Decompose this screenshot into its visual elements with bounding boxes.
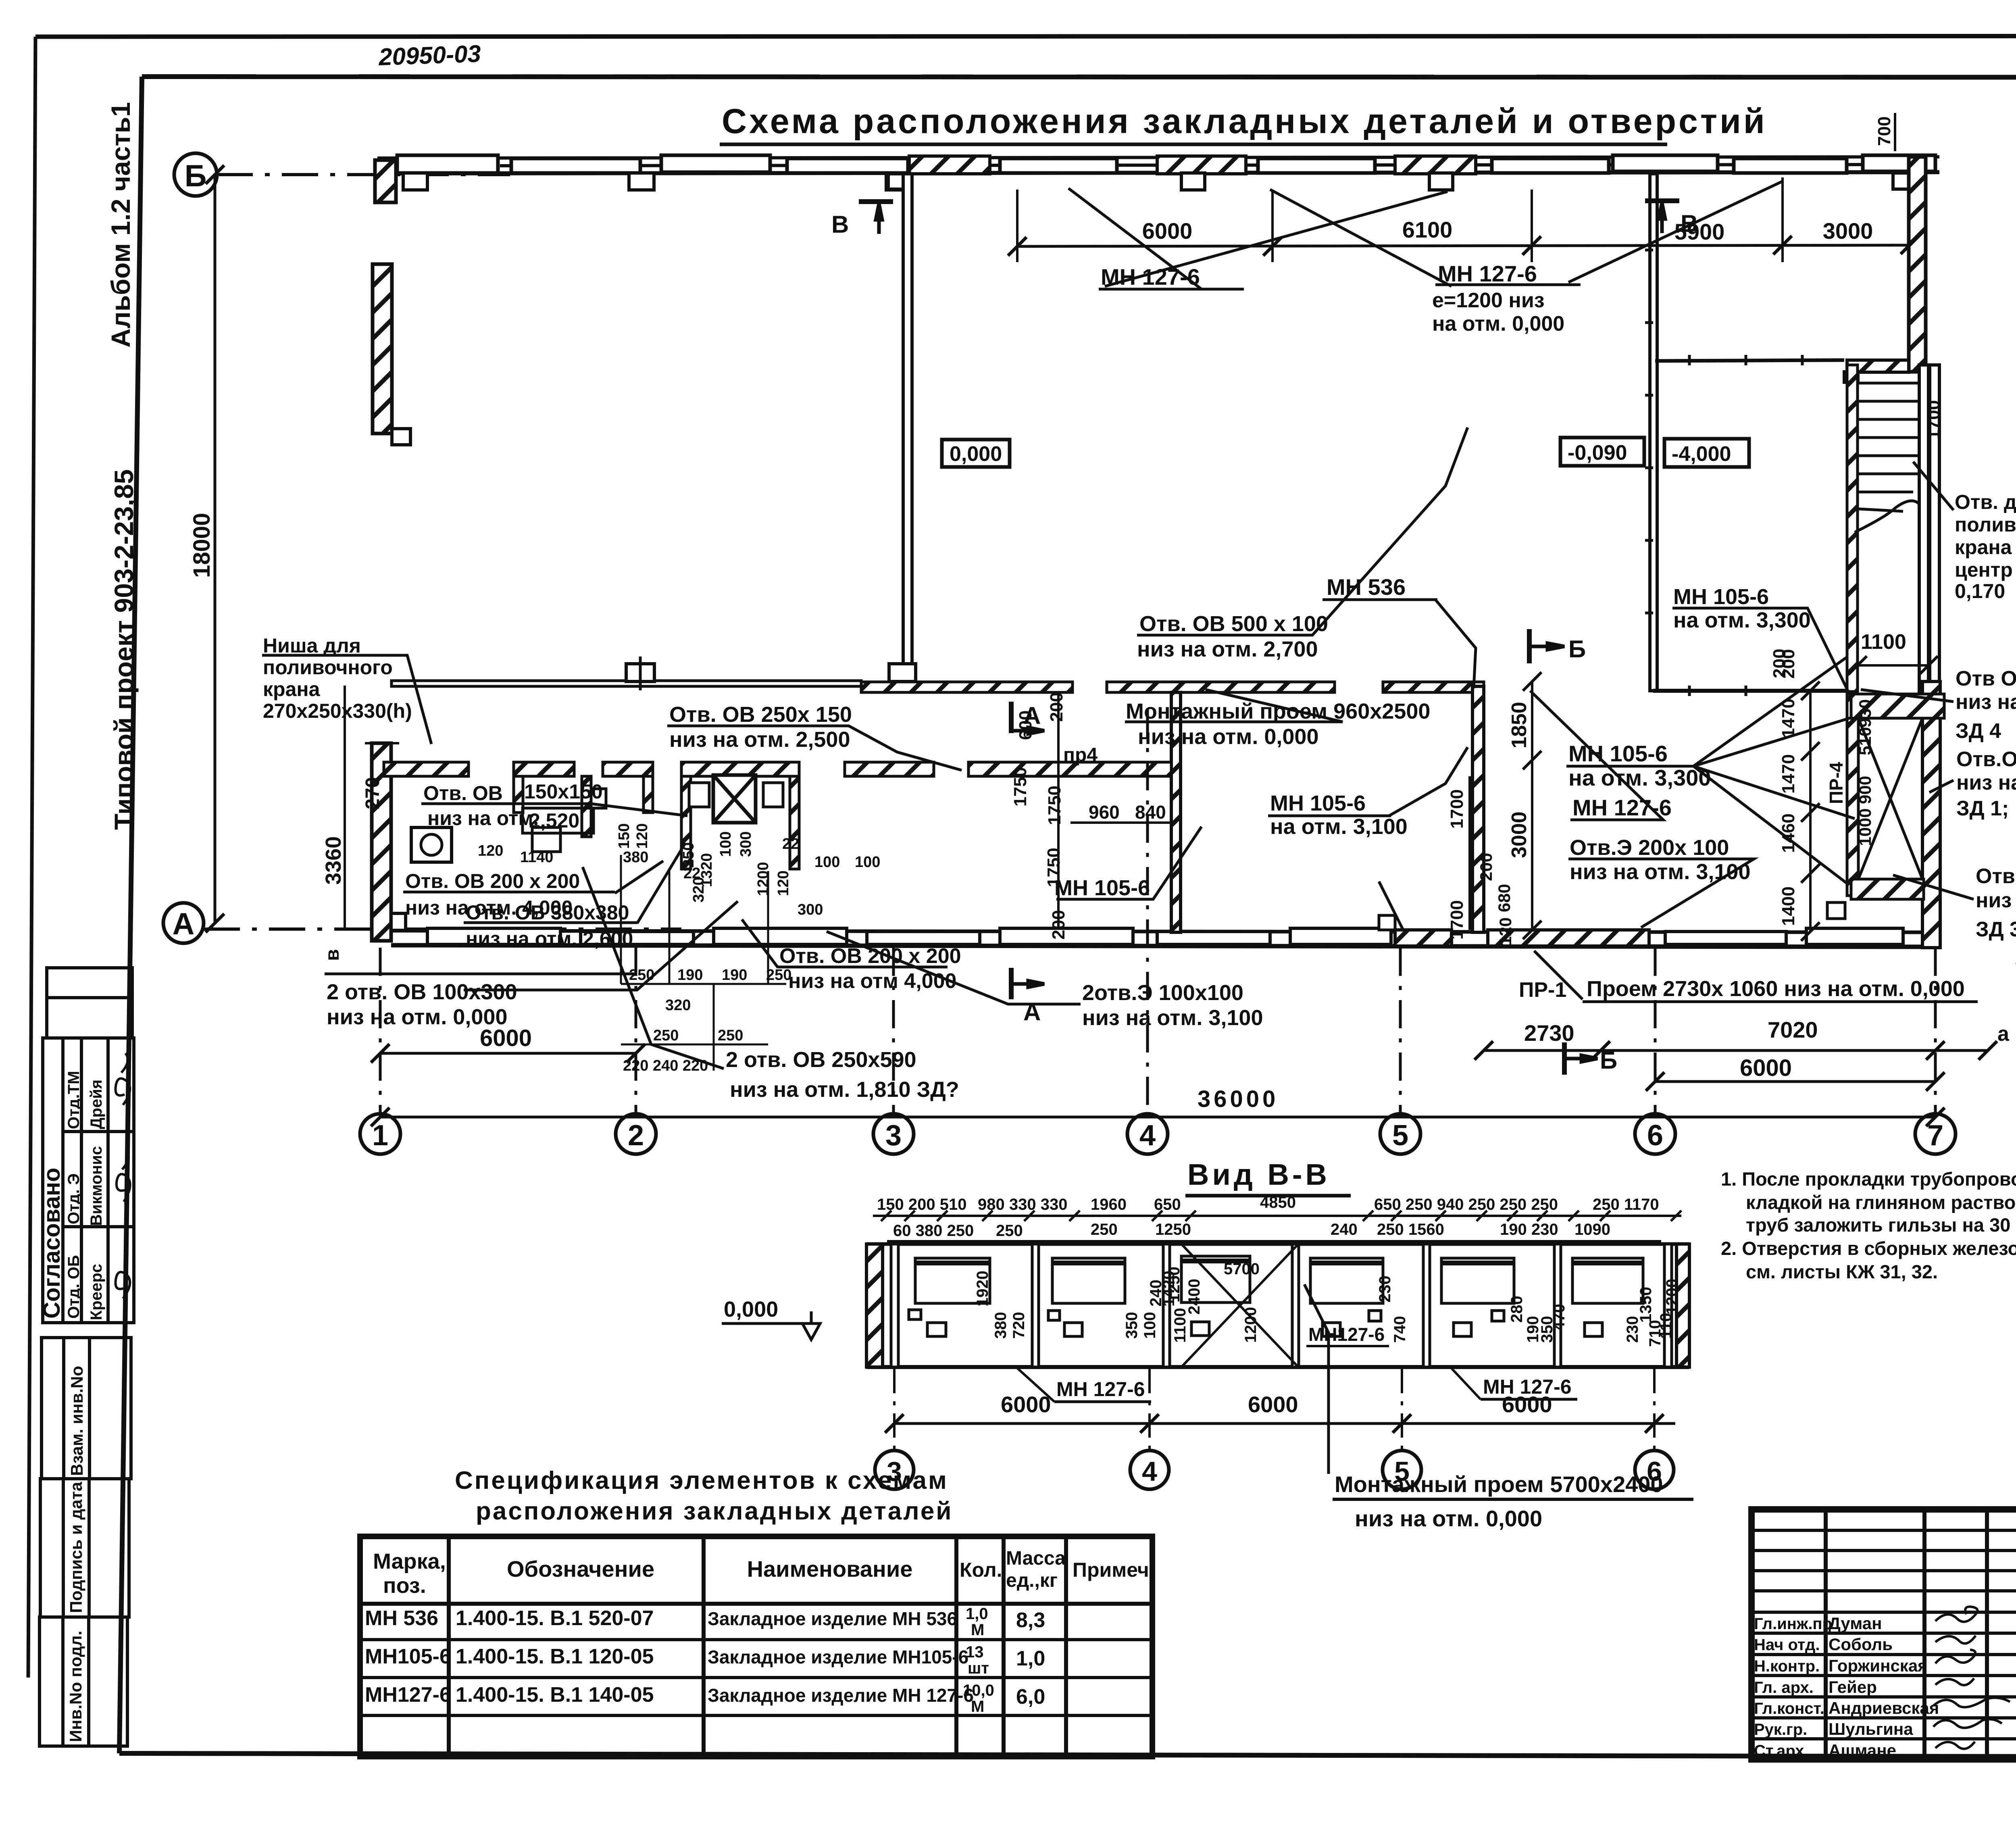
bottom dim row 2730 7020 [1484,1049,1988,1052]
svg-text:1100: 1100 [1171,1308,1189,1343]
svg-text:Б: Б [185,159,207,193]
svg-text:240: 240 [1331,1221,1358,1238]
signature squiggle 3 [115,1272,130,1298]
svg-text:190 230: 190 230 [1500,1221,1558,1238]
north wall band top line [377,157,1939,158]
south wall panel 8 [1665,932,1786,944]
title block grid [1752,1509,2016,1759]
divider 5 [1554,1244,1561,1367]
svg-text:250 1170: 250 1170 [1593,1196,1659,1213]
svg-text:250: 250 [766,967,791,984]
svg-text:5700: 5700 [1224,1260,1260,1278]
svg-text:Шульгина: Шульгина [1829,1719,1913,1738]
margin approval box (Согласовано) [43,1038,134,1323]
spec table grid [360,1536,1152,1757]
svg-text:МН 127-6: МН 127-6 [1056,1378,1145,1401]
H2 column tab V1 [889,664,916,681]
svg-text:120: 120 [478,842,503,859]
svg-text:А: А [173,907,195,941]
svg-text:крана: крана [263,678,321,700]
svg-text:МН 105-6: МН 105-6 [1270,791,1366,815]
svg-text:1000: 1000 [1856,809,1874,846]
svg-text:МН 536: МН 536 [365,1607,438,1630]
north wall window panel 12 [1734,158,1847,173]
svg-text:6000: 6000 [1740,1055,1792,1081]
fixture washbasin rect [411,827,452,862]
svg-text:1.400-15. В.1 120-05: 1.400-15. В.1 120-05 [456,1645,654,1668]
svg-text:Соболь: Соболь [1829,1635,1893,1654]
svg-text:1750: 1750 [1010,767,1030,807]
svg-text:низ на отм. 0,300: низ на отм. 0,300 [1956,690,2016,714]
axis circle 4 [1127,1114,1168,1154]
divider 1 [1032,1244,1039,1367]
svg-text:7: 7 [1927,1119,1943,1152]
axis circle А [163,903,204,943]
svg-text:Горжинская: Горжинская [1829,1656,1928,1675]
svg-text:низ на отм. 2,500: низ на отм. 2,500 [669,727,850,752]
svg-text:Альбом 1.2 часть1: Альбом 1.2 часть1 [106,102,135,348]
svg-text:250: 250 [653,1027,679,1044]
opening panel 1 [909,1258,990,1336]
svg-text:Гейер: Гейер [1829,1678,1877,1696]
margin box upper empty 1 [47,968,132,998]
north wall window panel 8 [1258,158,1375,173]
east wall lower-right hatched [1922,681,1940,948]
svg-text:1,0: 1,0 [1016,1647,1045,1670]
underline МН127-6 е=1200 [1435,283,1581,286]
svg-text:3360: 3360 [321,836,346,885]
svg-text:200: 200 [1047,692,1066,722]
svg-text:120: 120 [775,871,792,896]
axis Б dash-dot line [217,173,510,176]
svg-text:Ниша для: Ниша для [263,634,361,657]
leader big МН 105-6 3,300 fan [1568,657,1847,766]
fixture rect 2 [763,783,783,807]
svg-text:МН127-6: МН127-6 [1308,1324,1385,1345]
inner frame bottom [119,1753,2016,1757]
6000 dim line axes 6-7 [1655,1080,1935,1083]
svg-text:низ на отм. 3,100: низ на отм. 3,100 [1570,860,1750,884]
svg-text:Вид В-В: Вид В-В [1187,1158,1330,1191]
axis circle 5 [1383,1451,1421,1489]
svg-text:ПР-1: ПР-1 [1519,978,1566,1002]
margin box Подпись и дата [40,1479,129,1617]
section mark Б lower [1564,1042,1597,1075]
north wall hatched lintel 2 [1157,156,1246,174]
leader МН 127-6 lower right [1530,691,1663,820]
inner frame top [142,77,2016,77]
column tab axis1 [403,173,427,190]
axis circle 5 [1380,1114,1420,1154]
cluster tiny dims [478,823,880,1074]
svg-text:Викмонис: Викмонис [87,1146,105,1226]
south wall hatched opening ПР-1 [1488,930,1649,946]
svg-text:В: В [831,211,849,238]
axis А dash-dot line [204,927,681,931]
svg-text:150х150: 150х150 [524,780,603,803]
leader 2отв ОВ 100х300 [464,901,738,990]
svg-text:МН127-6: МН127-6 [365,1683,451,1707]
svg-text:низ на отм. 3,100: низ на отм. 3,100 [1082,1006,1263,1030]
svg-text:320: 320 [690,877,707,902]
underline big МН105-6 [1566,765,1695,768]
svg-text:Наименование: Наименование [747,1556,913,1582]
svg-text:7020: 7020 [1768,1017,1818,1042]
svg-text:1420: 1420 [1160,1271,1178,1307]
svg-text:200: 200 [1770,649,1789,678]
top tiny dim row 2 [893,1221,1610,1240]
fixture rect 1 [689,783,709,807]
leader Монтажный проем 960 [1125,690,1343,722]
svg-text:МН 127-6: МН 127-6 [1572,795,1672,820]
svg-text:е=1200 низ: е=1200 низ [1432,289,1545,312]
axis circle 3 [873,1114,914,1154]
opening panel 4 [1310,1258,1383,1336]
axis circle 7 [1915,1114,1956,1154]
east wall upper hatched [1909,157,1926,372]
room side wall d2 [790,776,799,869]
south wall panel 2 [581,932,694,944]
svg-text:250: 250 [718,1027,743,1044]
svg-text:ЗД 4: ЗД 4 [1956,719,2001,743]
stairs treads [1855,383,1928,532]
svg-text:2. Отверстия в сборных желе: 2. Отверстия в сборных железобетонных пе… [1721,1238,2016,1259]
svg-text:Подпись и дата: Подпись и дата [67,1482,85,1613]
north wall window panel 1 [397,155,498,173]
small dim line 270 [365,742,399,744]
svg-text:А: А [1023,998,1041,1025]
svg-text:22: 22 [782,836,799,852]
axis circle 1 [360,1114,400,1154]
svg-text:Н.контр.: Н.контр. [1754,1657,1820,1675]
svg-text:Взам. инв.No: Взам. инв.No [67,1366,86,1476]
leader Отв ОВ 200х200 left [615,861,663,893]
svg-text:Думан: Думан [1829,1614,1882,1633]
elevation box -0,090 [1560,438,1644,466]
svg-text:низ на отм 4,000: низ на отм 4,000 [788,969,956,993]
svg-text:Б: Б [1600,1047,1617,1074]
svg-text:Масса: Масса [1006,1548,1066,1569]
column tab axis2 [629,173,654,190]
svg-text:380: 380 [992,1312,1010,1339]
H2 column tab axis2 [626,664,654,681]
margin box Взам.инв.No [42,1338,131,1479]
axis circle 2 [616,1114,656,1154]
svg-text:250: 250 [1091,1221,1118,1238]
svg-text:в: в [322,949,343,961]
south wall panel 3 [714,928,847,944]
svg-text:Согласовано: Согласовано [39,1168,65,1319]
svg-text:2отв.Э 100х100: 2отв.Э 100х100 [1082,981,1243,1005]
fixture toilet [532,827,560,852]
svg-text:3: 3 [885,1119,902,1152]
room side wall b1 [514,776,523,813]
leader Отв ОВ 2090х630 [1929,780,1954,792]
fixture washbasin circle [421,834,442,855]
svg-text:А: А [1023,702,1041,729]
rooms north wall seg C [603,762,653,776]
leader МН 105-6 3,100 [1268,747,1468,816]
svg-text:0,000: 0,000 [724,1297,778,1321]
V2 side ticks [1645,250,1653,613]
svg-text:100: 100 [717,832,734,857]
leader Проем 2730х1060 [1534,951,1583,999]
svg-text:МН105-6: МН105-6 [365,1645,451,1668]
left columns [1824,1509,1828,1759]
svg-text:6: 6 [1647,1119,1663,1152]
svg-text:Типовой проект 903-2-23,85: Типовой проект 903-2-23,85 [109,469,139,830]
svg-text:5: 5 [1392,1119,1408,1152]
svg-text:Закладное изделие МН105-6: Закладное изделие МН105-6 [708,1646,968,1667]
svg-text:на отм. 3,300: на отм. 3,300 [1673,608,1811,632]
svg-text:320: 320 [665,997,691,1014]
svg-text:0,000: 0,000 [950,442,1002,466]
svg-text:низ на отм. 0,000: низ на отм. 0,000 [1355,1506,1542,1531]
door arc lower-left [1379,882,1403,930]
svg-text:Инв.No подл.: Инв.No подл. [66,1631,85,1742]
svg-text:Кол.: Кол. [960,1559,1002,1581]
svg-text:6000: 6000 [1248,1392,1298,1417]
svg-text:100: 100 [814,854,840,871]
south wall panel 6 [1157,932,1270,944]
leader Отв для поливочного [1913,462,1954,510]
inner wall V1 double line [903,174,912,682]
strip left hatched end [866,1244,883,1367]
svg-text:510: 510 [1856,727,1874,755]
svg-text:МН 127-6: МН 127-6 [1101,264,1200,290]
elevation box -4,000 [1664,439,1749,467]
svg-text:Ашмане: Ашмане [1829,1741,1896,1760]
svg-text:М: М [971,1621,984,1639]
leader Отв ОВ 200х200 axis3 [742,919,778,968]
underline МН 105-6 3,100 [1268,815,1391,817]
axis circle 3 [875,1451,914,1489]
svg-text:3000: 3000 [1823,218,1873,244]
west wall upper hatched [373,264,392,433]
svg-text:8,3: 8,3 [1016,1609,1045,1632]
svg-text:10,0: 10,0 [963,1682,994,1699]
svg-text:ЗД 1; Р-1: ЗД 1; Р-1 [1956,797,2016,820]
right room dim line x4490 [1809,691,1812,932]
leader Отв.ОВ 250х150 [667,726,962,770]
small square in lower-right room [1827,902,1845,919]
svg-text:Отд.ТМ: Отд.ТМ [65,1071,83,1129]
leader Отв.Э 200х100 [1568,859,1754,927]
outer border left [28,37,35,1678]
svg-text:5: 5 [1394,1456,1410,1487]
leader lines group [262,181,1978,1069]
svg-text:ед.,кг: ед.,кг [1006,1570,1058,1591]
svg-text:220 240 220: 220 240 220 [623,1057,708,1074]
svg-text:120: 120 [1496,917,1515,946]
left rows [1752,1529,2016,1532]
svg-text:Ст.арх.: Ст.арх. [1754,1742,1809,1760]
svg-text:1140: 1140 [520,849,553,866]
H6 tick 2 [1745,686,1747,696]
section mark В right [1645,201,1679,233]
X-box ventilation shaft [713,775,756,823]
inner frame left [119,77,142,1753]
signature squiggle 1 [115,1053,130,1105]
north wall inner thin line [500,165,1911,166]
underline Отв ОВ 380х380 [464,921,637,924]
svg-text:960: 960 [1089,802,1120,823]
top dim lines [873,1215,1681,1217]
svg-text:Андриевская: Андриевская [1829,1699,1939,1717]
svg-text:680: 680 [1495,884,1514,912]
axis circle 6 [1635,1114,1675,1154]
svg-text:720: 720 [1010,1312,1028,1339]
svg-text:1920: 1920 [974,1271,991,1307]
ПР-4 shaft top block [1851,694,1944,718]
svg-text:-4,000: -4,000 [1672,442,1731,466]
svg-text:пр4: пр4 [1063,744,1098,766]
svg-text:470: 470 [1550,1304,1568,1331]
column tab axis4 [1181,173,1205,190]
svg-text:2730: 2730 [1524,1020,1574,1046]
axis circle 6 [1635,1451,1674,1489]
lower rooms inner wall stub [582,776,591,837]
H6 tick 1 [1688,686,1691,696]
north wall window panel 11 [1613,155,1718,171]
svg-text:поз.: поз. [383,1573,426,1598]
svg-text:Отв ОВ 510х 1260: Отв ОВ 510х 1260 [1956,667,2016,690]
axis circle Б [174,153,217,196]
svg-text:Нач отд.: Нач отд. [1754,1636,1820,1654]
north wall window panel 13 [1863,155,1935,171]
strip inside dims [974,1260,1681,1347]
svg-text:низ на отм. 0,000: низ на отм. 0,000 [1138,725,1318,749]
svg-text:Креерс: Креерс [87,1264,105,1320]
underline Отв ОВ 200х200 left [403,891,615,894]
svg-text:300: 300 [798,901,823,918]
middle room dim line x3645 [1468,776,1471,930]
svg-text:МН 105-6: МН 105-6 [1054,876,1150,900]
south wall panel 1 [427,928,560,944]
svg-text:2: 2 [628,1119,644,1152]
bottom axis stub lines [380,710,1935,1113]
svg-text:труб заложить гильзы на 30: труб заложить гильзы на 30 мм больше ф т… [1746,1214,2016,1236]
column tab axis7 [1893,173,1916,189]
top dim stub verticals [1016,190,1018,262]
north wall window panel 4 [787,158,908,173]
north wall hatched lintel 1 [909,156,990,174]
svg-text:1470: 1470 [1779,754,1798,794]
axis circle 4 [1130,1451,1169,1489]
svg-text:Закладное изделие МН 536: Закладное изделие МН 536 [708,1608,957,1629]
svg-text:ПР-4: ПР-4 [1826,762,1847,804]
small tab mid south [1379,915,1395,930]
divider 2 [1163,1244,1170,1367]
underline МН105-6 -4000 [1672,607,1808,610]
south wall panel 9 [1806,928,1903,944]
strip right double wall [1664,1244,1672,1367]
svg-text:расположения закладных детал: расположения закладных деталей [476,1497,953,1525]
svg-text:Отд. ОБ: Отд. ОБ [65,1255,83,1319]
north wall window panel 3 [661,155,770,172]
svg-text:200: 200 [1049,910,1068,940]
svg-text:-0,090: -0,090 [1568,441,1627,465]
svg-text:крана ф 100: крана ф 100 [1955,536,2016,559]
svg-text:Гл. арх.: Гл. арх. [1754,1679,1814,1696]
svg-text:6000: 6000 [1502,1392,1552,1417]
cluster dim leader lines [621,855,786,1071]
svg-text:1: 1 [372,1119,388,1152]
leader МН127-6 е=1200 [1568,181,1782,282]
axis stubs [894,1369,1654,1450]
svg-text:Рук.гр.: Рук.гр. [1754,1721,1807,1738]
leader МН127-6 top [1068,188,1202,289]
opening panel 2 [1048,1258,1125,1336]
leader монтажный проем [1304,1284,1329,1474]
svg-text:Б: Б [1568,636,1586,663]
svg-text:Отв. ОВ 500 х 100: Отв. ОВ 500 х 100 [1139,612,1328,636]
svg-text:18000: 18000 [189,513,215,578]
svg-text:М: М [971,1698,984,1715]
svg-text:13: 13 [966,1643,984,1661]
svg-text:2,520: 2,520 [529,809,579,832]
H1 tick 1 [1688,355,1691,365]
H1 tick 2 [1745,355,1747,365]
section mark Б upper [1529,629,1564,663]
leader Отв ОВ 510х1260 [1861,690,1954,702]
room side wall d1 [681,776,691,869]
svg-text:150: 150 [616,823,633,849]
east wall step down [1844,372,1858,382]
signature squiggle 2 [117,1152,130,1202]
svg-text:Схема расположения закладных: Схема расположения закладных деталей и о… [722,102,1767,141]
svg-text:Закладное изделие МН 127-6: Закладное изделие МН 127-6 [708,1685,974,1706]
leader 2отв ОВ 250х590 [583,867,724,1069]
fixture small block [582,789,606,808]
ПР-4 shaft west wall [1847,694,1858,896]
rooms north wall seg E [845,762,934,776]
svg-text:низ на отм. 2,700: низ на отм. 2,700 [1137,637,1318,661]
svg-text:0,170: 0,170 [1955,580,2005,602]
6000 dim line axes 1-2 [380,1052,636,1055]
underline Отв ОВ 150х150 [421,802,591,805]
svg-text:Отв.ОВ 1000х 1800: Отв.ОВ 1000х 1800 [1976,865,2016,888]
stairs right wall double [1919,365,1929,702]
svg-text:кладкой на глиняном раствор: кладкой на глиняном растворе. В пределах… [1746,1192,2016,1213]
leader Отв.ОВ 500х100 [1137,427,1468,635]
stairs break curve [1855,488,1928,532]
svg-text:Дрейя: Дрейя [87,1080,105,1129]
svg-text:МН 127-6: МН 127-6 [1438,261,1537,286]
south wall panel 7 [1290,928,1391,944]
svg-text:центр на отм.: центр на отм. [1955,559,2016,581]
room side wall b2 [644,776,653,813]
svg-text:6000: 6000 [1142,218,1193,244]
outer border top [35,36,2016,37]
svg-text:4: 4 [1139,1119,1156,1152]
south wall panel 5 [1000,928,1133,944]
svg-text:Примеч: Примеч [1073,1559,1149,1581]
opening panel 3 [1181,1256,1250,1336]
dim 1100 [1858,664,1929,667]
corridor dim line x2625 [1057,692,1060,930]
svg-text:60 380 250: 60 380 250 [893,1222,974,1240]
svg-text:1750: 1750 [1045,786,1064,825]
svg-text:6: 6 [1647,1456,1662,1487]
svg-text:МН 105-6: МН 105-6 [1673,585,1769,609]
top dim line [1017,245,1910,246]
svg-text:840: 840 [1135,802,1166,823]
leader Отв ОВ 1000х1800 [1893,875,1974,899]
ПР-4 shaft bottom block [1851,879,1924,899]
svg-text:на отм. 3,300: на отм. 3,300 [1568,765,1711,790]
diagonal cross mid strip [1181,1244,1298,1367]
